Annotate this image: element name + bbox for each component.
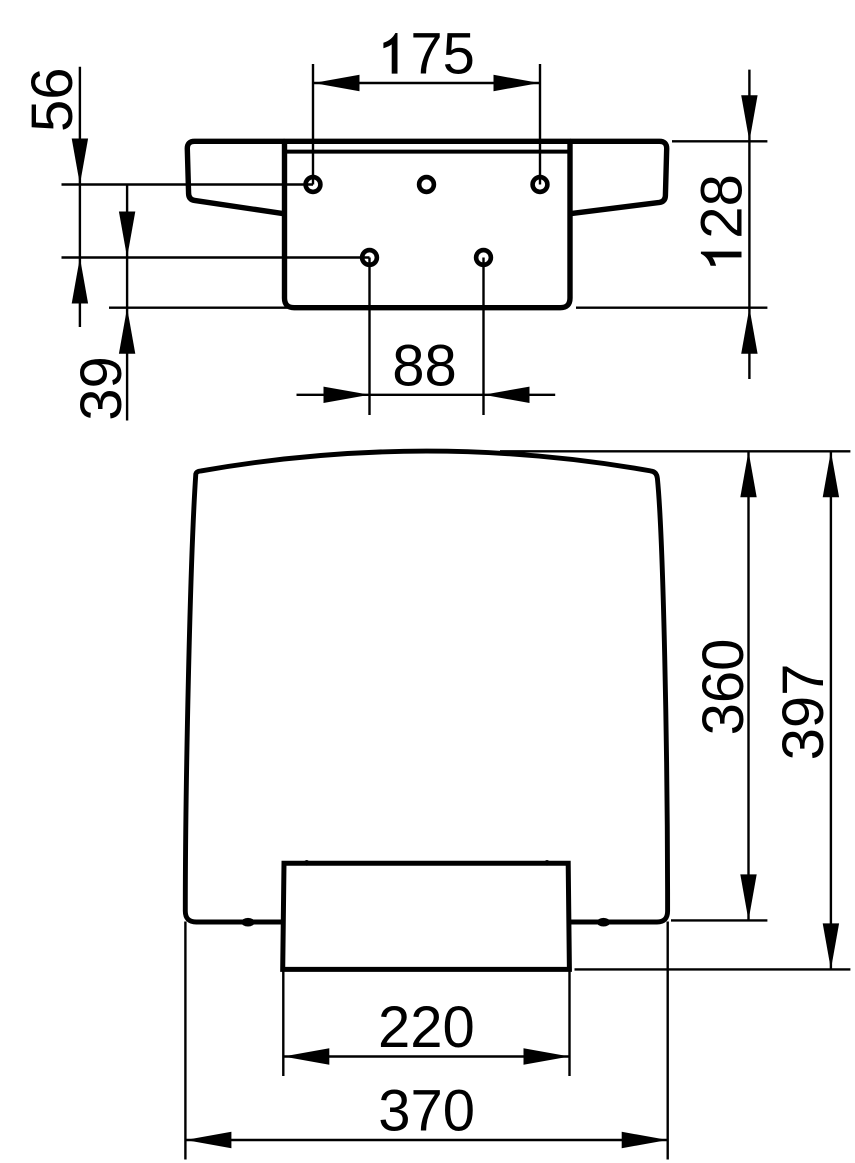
hinge pin left <box>304 860 310 866</box>
extension line 370 right <box>667 922 669 1160</box>
left wing bracket <box>187 141 284 213</box>
arrow 220 left <box>283 1048 329 1064</box>
svg-text:88: 88 <box>392 333 457 398</box>
dimension line 39 vertical <box>126 185 128 421</box>
extension line 397 bottom <box>575 968 851 970</box>
svg-text:39: 39 <box>69 356 134 421</box>
arrow 360 up <box>740 451 756 497</box>
flap panel <box>283 863 570 969</box>
extension line 370 left <box>184 922 186 1160</box>
hinge pin right <box>544 860 550 866</box>
extension line 220 right <box>568 969 570 1076</box>
arrow 56 down <box>72 139 88 185</box>
dimension line 175 <box>313 82 540 84</box>
svg-text:75: 75 <box>410 22 475 87</box>
dimension line 397 <box>830 451 832 969</box>
dimension line 220 <box>283 1055 569 1057</box>
arrow 220 right <box>524 1048 570 1064</box>
extension line 88 left <box>368 258 370 416</box>
extension line 175 right <box>539 64 541 185</box>
arrow 128 up <box>741 308 757 354</box>
extension line 128 top <box>672 140 767 142</box>
svg-text:28: 28 <box>690 174 755 239</box>
right wing bracket <box>570 141 667 213</box>
plate inner edge line <box>285 150 570 154</box>
svg-text:397: 397 <box>771 664 836 761</box>
svg-text:56: 56 <box>20 67 85 132</box>
foot blob right <box>597 918 610 927</box>
arrow 128 down <box>741 95 757 141</box>
dimension line 88 <box>297 394 556 396</box>
extension line 220 left <box>282 969 284 1076</box>
svg-text:220: 220 <box>378 995 475 1060</box>
svg-text:370: 370 <box>378 1079 475 1144</box>
hole bottom-left <box>362 250 377 265</box>
extension line 128 bottom <box>576 307 767 309</box>
label 128 <box>690 174 755 266</box>
arrow 360 down <box>740 874 756 920</box>
mounting plate outline <box>285 141 571 307</box>
arrow 88 right-pointing <box>324 387 370 403</box>
extension line 88 right <box>482 258 484 416</box>
extension line 175 left <box>312 64 314 185</box>
extension line row A (upper hole row) <box>62 183 314 185</box>
arrow 56 up <box>72 258 88 304</box>
arrow 397 up <box>823 451 839 497</box>
hole top-center <box>419 177 434 192</box>
hole top-right <box>533 177 548 192</box>
dimension line 360 <box>747 451 749 920</box>
hole bottom-right <box>476 250 491 265</box>
label 175 digit 1 <box>383 33 397 74</box>
hole top-left <box>306 177 321 192</box>
foot blob left <box>241 918 254 927</box>
dimension line 370 <box>185 1139 667 1141</box>
arrow 397 down <box>823 923 839 969</box>
extension line top (seat apex) <box>500 450 850 452</box>
svg-text:360: 360 <box>691 639 756 736</box>
seat outline <box>185 451 667 922</box>
arrow 175 left <box>314 75 360 91</box>
extension line row B (lower hole row) <box>62 256 370 258</box>
arrow 370 right <box>622 1132 668 1148</box>
dimension line 128 vertical <box>748 70 750 379</box>
dimension line 56 vertical <box>79 67 81 327</box>
arrow 175 right <box>494 75 540 91</box>
arrow 88 left-pointing <box>484 387 530 403</box>
extension line row C (plate bottom) <box>109 307 290 309</box>
arrow 39 up <box>119 308 135 354</box>
arrow 39 down <box>119 212 135 258</box>
extension line 360 bottom <box>671 919 767 921</box>
arrow 370 left <box>185 1132 231 1148</box>
